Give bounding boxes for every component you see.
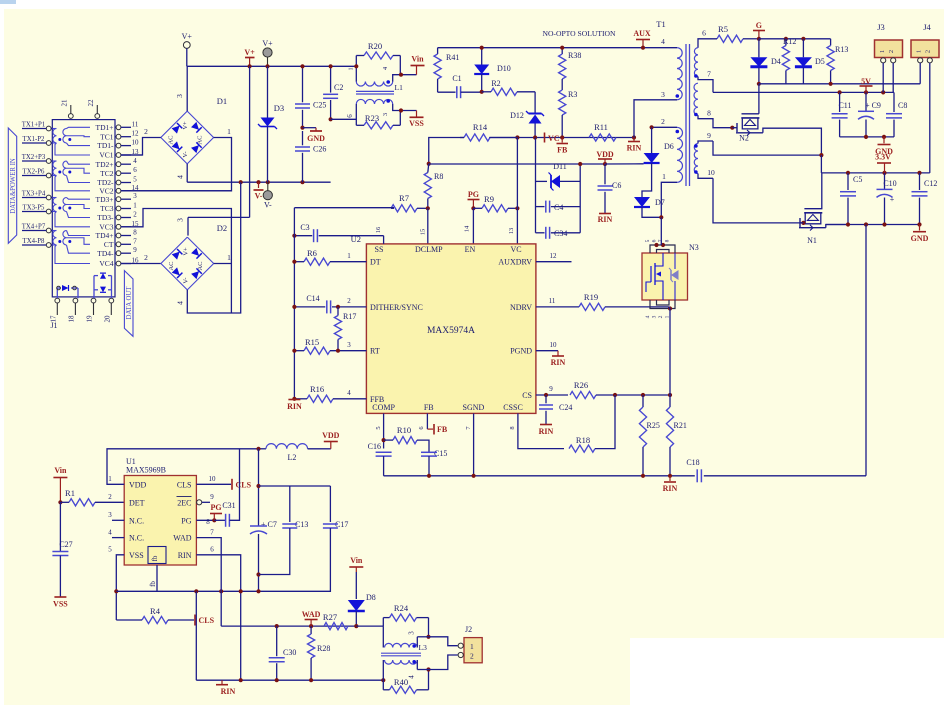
svg-text:RIN: RIN [551,358,566,367]
svg-text:9: 9 [549,385,553,393]
svg-text:GND: GND [307,134,325,143]
svg-text:TX2+P3: TX2+P3 [22,154,46,161]
wire D6 to D7 [642,163,652,197]
wire J4 pin1 to rectifier row [919,63,921,84]
svg-text:3: 3 [176,218,185,222]
wire G row to R12/R13 [759,38,831,40]
svg-text:16: 16 [375,226,382,233]
svg-text:2: 2 [144,253,148,262]
net flag CLS (pin10) [231,479,233,490]
wire J4 pin2 to 3.3V rail [929,63,931,173]
junction PG / C31 [212,518,216,522]
svg-text:19: 19 [86,315,94,323]
svg-text:VC1: VC1 [99,151,113,160]
svg-text:R25: R25 [647,421,660,430]
wire J3 pin1 to 5V rail [882,63,884,93]
svg-text:R19: R19 [584,292,598,302]
svg-text:11: 11 [549,297,556,305]
junction 3.3V rail / C12 [917,171,921,175]
svg-text:5: 5 [133,176,137,184]
svg-text:R1: R1 [65,488,75,498]
junction N3 bottom pins / NDRV [668,306,672,310]
svg-text:15: 15 [420,229,427,236]
svg-text:D6: D6 [664,142,674,151]
svg-text:18: 18 [67,315,75,323]
svg-text:CLS: CLS [177,480,192,489]
svg-text:N.C.: N.C. [129,516,144,525]
connector J1 internal transformer group 1 [52,128,56,130]
svg-text:C11: C11 [838,101,851,110]
wire cap top row to C13 and C17 [259,485,331,487]
net flag RIN (near T1) [633,138,635,142]
svg-text:12: 12 [550,252,558,260]
svg-text:4: 4 [133,157,137,165]
wire EN pin column [472,208,474,244]
svg-text:J1: J1 [50,321,57,330]
wire FB pin flag [426,413,428,429]
svg-text:TD4+: TD4+ [96,231,114,240]
svg-text:C2: C2 [334,83,343,92]
svg-text:VC4: VC4 [99,259,113,268]
svg-text:3: 3 [661,90,665,99]
wire U1 pin8 PG [196,519,214,521]
wire 5V rail [713,91,894,93]
svg-text:DT: DT [370,258,381,267]
junction 3.3V rail / C10 / flag [882,171,886,175]
svg-text:5: 5 [375,426,382,429]
transformer L1 core [356,90,394,92]
svg-text:V+: V+ [182,247,189,256]
svg-text:C27: C27 [59,540,72,549]
svg-text:C4: C4 [554,203,563,212]
svg-text:8: 8 [707,109,711,118]
junction L1 pin3 [399,108,403,112]
svg-text:EN: EN [465,245,476,254]
transformer L3 lower winding with R40 [385,660,418,664]
svg-text:4: 4 [176,175,185,179]
svg-text:C31: C31 [222,501,235,510]
wire C2 to L1 pin6 [329,117,333,121]
svg-text:2: 2 [658,315,664,318]
wire U1 exposed pad stub [156,565,158,577]
terminal V- (gray circle) [266,180,270,184]
junction CS row / N3 column [668,393,672,397]
svg-text:RIN: RIN [627,144,642,153]
svg-text:20: 20 [103,315,111,323]
wire node to D2 pin 3 [188,216,250,218]
svg-text:1: 1 [470,642,474,651]
connector J1 left pin TX1-P2 [46,141,51,146]
power port VSS (top) [410,116,424,118]
power port RIN (under C24) [540,424,552,426]
svg-text:+ C7: + C7 [261,520,277,529]
connector J3 pins [881,58,886,63]
svg-text:D4: D4 [771,57,781,66]
junction T1 pin2 / D6 [650,125,654,129]
junction R11 right / RIN / T1 pin3 [632,135,636,139]
junction 5V rail / C11 [838,90,842,94]
connector J1 left pin TX2+P3 [46,159,51,164]
power port VSS (bottom left) [54,596,66,598]
junction top bus / C2 [329,64,333,68]
junction GND2 / C12 / GND flag [917,222,921,226]
wire SGND pin column [473,413,475,475]
svg-text:Vin: Vin [54,466,67,475]
svg-text:R28: R28 [317,644,330,653]
svg-text:D12: D12 [510,111,524,120]
power port RIN (bottom rail) [669,476,671,481]
wire V+ vertical to D2 node [249,66,251,217]
connector J1 pin 22 [95,114,100,119]
svg-text:1: 1 [348,67,355,70]
svg-text:RIN: RIN [221,687,236,696]
junction VDD row / R8 top [427,162,431,166]
junction R13 bottom [829,82,833,86]
junction D8 / R27 / L3 row [354,624,358,628]
polarity dot T1 secondary A [694,74,698,78]
junction on V+ bus at power port [248,64,252,68]
svg-text:R12: R12 [783,37,796,46]
svg-text:CLS: CLS [199,616,215,625]
svg-text:fb: fb [149,581,157,587]
transformer T1 secondary winding B (pins 7-8) [694,83,698,115]
junction D4 / 5V rail riser [757,82,761,86]
power port V- (bar symbol) [256,180,260,184]
svg-text:VDD: VDD [129,480,147,489]
junction N1 gate [801,221,805,225]
svg-text:2: 2 [133,211,137,219]
svg-text:NDRV: NDRV [510,303,532,312]
junction V- bus / D2 riser [239,180,243,184]
svg-text:AUXDRV: AUXDRV [498,258,532,267]
connector J1 left pin TX3+P4 [46,195,51,200]
svg-text:1: 1 [662,172,666,181]
svg-text:R20: R20 [368,41,382,51]
svg-text:R6: R6 [307,248,317,258]
svg-text:R21: R21 [674,421,687,430]
junction L3 tap 4 [426,667,430,671]
polarity dot T1 secondary C [694,144,698,148]
svg-text:VSS: VSS [409,119,424,128]
svg-text:C8: C8 [898,101,907,110]
svg-text:R14: R14 [473,122,488,132]
svg-text:RIN: RIN [663,484,678,493]
junction C7 column / C13-C17 top row [256,484,260,488]
junction D10/C1/R2 [480,90,484,94]
svg-text:10: 10 [707,168,715,177]
junction GND2 / C10 [882,222,886,226]
connector J1 body [52,120,115,297]
banner DATA&POWER IN [8,128,16,243]
op-amp U2 MAX5974A body [366,244,536,414]
svg-text:R4: R4 [150,606,161,616]
svg-text:+: + [890,195,895,204]
wire D1 pin3 to V+ bus [186,66,188,111]
svg-text:L2: L2 [288,453,297,462]
svg-text:C30: C30 [283,648,296,657]
net flag FB (under R3) [561,138,563,143]
svg-text:MAX5969B: MAX5969B [126,466,166,475]
svg-text:8: 8 [665,239,671,242]
power port RIN (rail B) [221,680,223,684]
svg-text:L1: L1 [395,83,404,92]
svg-text:R7: R7 [399,193,409,203]
net flag CLS (R4) [194,615,196,626]
svg-text:10: 10 [132,139,140,147]
junction C14 / R17 [336,305,340,309]
svg-text:CT: CT [104,240,114,249]
svg-text:5V: 5V [861,77,871,86]
svg-text:3.3V: 3.3V [875,153,891,162]
svg-text:C3: C3 [300,223,309,232]
svg-text:D10: D10 [497,64,511,73]
svg-text:7: 7 [707,70,711,79]
svg-text:3: 3 [175,94,184,98]
wire rail B [196,679,383,681]
junction R38/top line [560,46,564,50]
connector J1 left pin TX4-P8 [46,243,51,248]
svg-text:2EC: 2EC [177,498,191,507]
svg-text:1: 1 [133,202,137,210]
junction GND2 / C5 [846,222,850,226]
svg-text:RIN: RIN [539,427,554,436]
junction CS row / R18 riser [613,393,617,397]
svg-text:3: 3 [408,631,416,635]
mosfet module N3 body [642,253,688,300]
svg-text:2: 2 [888,50,895,53]
wire VDD row [429,163,605,165]
svg-text:R15: R15 [305,337,319,347]
transformer L3 core [381,652,421,654]
svg-text:TX3-P5: TX3-P5 [23,205,46,212]
svg-text:RT: RT [370,347,380,356]
wire VC1 to D1 pin2 [121,154,143,156]
svg-text:D8: D8 [366,593,376,602]
svg-text:12: 12 [132,130,140,138]
svg-text:SGND: SGND [463,403,485,412]
junction rail A / rail B riser [194,589,198,593]
wire VC2 to D1 pin1 [121,190,232,192]
svg-text:TX2-P6: TX2-P6 [23,169,46,176]
svg-text:9: 9 [133,246,137,254]
junction AUX / top line [641,46,645,50]
svg-text:9: 9 [707,131,711,140]
wire PGND pin 10 to RIN [536,350,558,352]
wire V- bottom bus [187,181,330,183]
junction G node [757,37,761,41]
wire rectifier output row to J4 [759,83,920,85]
svg-text:AC: AC [168,261,175,270]
junction rail / R25 [641,474,645,478]
svg-text:4: 4 [408,675,416,679]
junction rail / C15 [427,474,431,478]
svg-text:VC3: VC3 [99,222,113,231]
svg-text:MAX5974A: MAX5974A [427,326,475,336]
junction rail B / R28 [309,678,313,682]
junction N3 top pins [654,243,658,247]
wire 3.3V rail [821,172,929,174]
junction rail / R21 / RIN flag [668,474,672,478]
wire N1 source [799,227,826,229]
junction CS pin / C24 [544,393,548,397]
svg-text:8: 8 [509,426,516,429]
svg-text:5: 5 [645,239,651,242]
wire D6 cathode to VDD row [605,163,644,165]
junction rail A / WAD column [219,589,223,593]
svg-text:3: 3 [382,113,389,116]
wire AUX top line [438,47,677,49]
svg-text:2: 2 [108,493,112,501]
junction VDD rail / C7 column [256,447,260,451]
power port GND (mid) [303,127,317,129]
svg-text:V+: V+ [244,48,255,57]
svg-text:4: 4 [661,37,665,46]
wire C7 column [258,449,260,526]
svg-text:WAD: WAD [302,610,321,619]
svg-text:R2: R2 [491,79,500,88]
wire DCLMP pin column [427,208,429,244]
junction VC row / D12 [533,135,537,139]
svg-text:TC2: TC2 [100,169,114,178]
junction VDD row / loop right [578,162,582,166]
svg-text:C34: C34 [554,229,567,238]
svg-text:R27: R27 [323,612,337,622]
junction left rail bottom / R16 [292,397,296,401]
svg-text:PGND: PGND [510,347,532,356]
svg-text:D2: D2 [217,223,227,233]
svg-text:R18: R18 [576,435,590,445]
wire secondary node down to 3.3V rail [820,155,822,173]
wire GND2 rail [826,224,920,226]
polarity dot T1 secondary B [694,113,698,117]
svg-text:V-: V- [264,201,272,210]
svg-text:V+: V+ [262,39,273,48]
svg-text:2: 2 [661,117,665,126]
connector J1 left pin TX4+P7 [46,228,51,233]
svg-text:VC: VC [548,134,560,143]
svg-text:VSS: VSS [129,551,144,560]
svg-text:21: 21 [61,99,69,107]
svg-text:R5: R5 [718,24,728,34]
wire VC pin column [516,138,518,244]
svg-text:J2: J2 [465,625,472,634]
wire secondary return to C18 rail [865,225,867,476]
wire L3 to J2 pin1 [429,637,458,646]
svg-text:D3: D3 [274,103,284,113]
connector J4 pins [918,58,923,63]
mosfet symbol inside N3 [655,253,663,266]
svg-text:SS: SS [375,245,384,254]
svg-text:R24: R24 [394,603,409,613]
svg-text:TX4-P8: TX4-P8 [23,238,46,245]
junction cap bus / C9 [864,135,868,139]
svg-text:+ C9: + C9 [865,101,881,110]
junction cap bus / GND flag [882,135,886,139]
junction pin6 column / rail A [239,589,243,593]
svg-text:R41: R41 [446,53,459,62]
svg-text:7: 7 [133,237,137,245]
connector J1 bottom pins 17-20 [55,298,60,303]
junction L3 tap 3 [426,635,430,639]
connector J1 left pin TX1+P1 [46,126,51,131]
svg-text:CLS: CLS [236,481,252,490]
svg-text:6: 6 [210,546,214,554]
svg-text:Vin: Vin [411,55,424,64]
junction C7 column / C13 bottom row [256,572,260,576]
svg-text:6: 6 [133,166,137,174]
svg-text:NO-OPTO SOLUTION: NO-OPTO SOLUTION [542,29,616,38]
wire left RIN rail [294,207,394,209]
connector J1 pin 21 [68,114,73,119]
svg-text:7: 7 [210,529,214,537]
wire SS pin 16 [383,236,385,244]
svg-text:10: 10 [550,341,558,349]
wire VC3 to D2 pin1 [121,209,231,265]
svg-text:TD2+: TD2+ [96,160,114,169]
terminal V+ (input plus) [183,42,190,49]
wire bottom RIN rail [384,475,695,477]
wire L1 pin4 to Vin [393,75,417,82]
junction EN pin / R9 [471,206,475,210]
wire rail B riser [195,591,197,680]
junction V+ bus / D3 column [265,64,269,68]
svg-text:3: 3 [108,511,112,519]
junction CS row / R25 [641,393,645,397]
svg-text:PG: PG [210,503,221,512]
svg-text:D7: D7 [655,198,665,207]
polarity dot T1 upper primary [676,94,680,98]
junction rail B / L3 left [381,678,385,682]
wire C4 loop right column [579,164,581,233]
svg-text:C25: C25 [313,101,326,110]
junction N2 source / T1 pin9 node [819,153,823,157]
wire N2 source [736,132,763,134]
wire N3 source column down to CS row [669,309,671,396]
wire AUXDRV pin 12 [536,261,572,263]
svg-text:C1: C1 [452,74,461,83]
svg-text:C12: C12 [924,179,937,188]
svg-text:TD4-: TD4- [97,249,114,258]
svg-text:C16: C16 [368,442,381,451]
svg-text:fb: fb [151,555,159,561]
svg-text:C6: C6 [612,181,621,190]
svg-text:V-: V- [182,151,189,157]
svg-text:DET: DET [129,498,145,507]
svg-text:R13: R13 [835,45,848,54]
svg-text:CS: CS [522,391,532,400]
svg-text:V+: V+ [182,32,193,41]
svg-text:J3: J3 [877,22,885,32]
svg-text:C18: C18 [686,458,699,467]
svg-text:FB: FB [437,425,448,434]
wire V+ top bus [187,65,356,67]
svg-text:R3: R3 [568,90,577,99]
svg-text:VDD: VDD [596,150,614,159]
svg-text:J4: J4 [923,22,931,32]
junction D7 / T1 pin1 / N3 drain [659,215,663,219]
svg-text:D1: D1 [217,96,227,106]
svg-text:AC: AC [197,261,204,270]
wire VC row [460,137,464,139]
svg-text:N.C.: N.C. [129,534,144,543]
svg-text:AC: AC [168,135,175,144]
svg-text:6: 6 [346,114,354,118]
wire C4 loop left column [535,138,537,233]
junction VC column / R9 right [515,206,519,210]
svg-text:TC1: TC1 [100,132,114,141]
svg-text:DATA&POWER IN: DATA&POWER IN [10,158,17,214]
svg-text:TX4+P7: TX4+P7 [22,224,46,231]
